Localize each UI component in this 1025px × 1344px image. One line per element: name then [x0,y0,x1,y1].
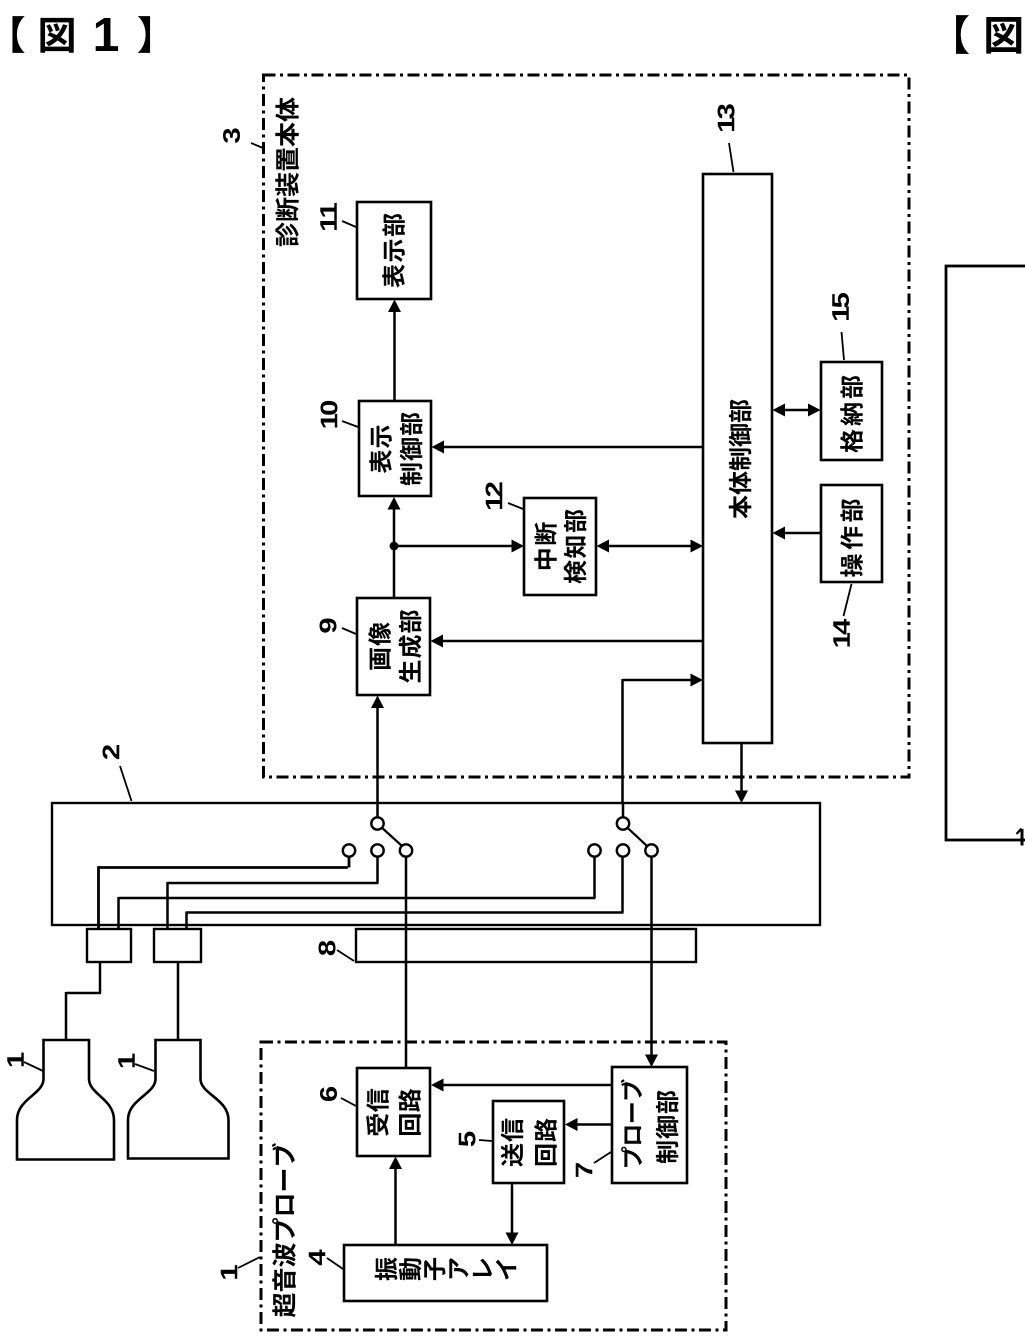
label 5 [459,1132,476,1147]
switch SW1 lever [382,828,401,846]
wire bus4: SW2 contact b to probe connector B [187,857,624,929]
label 14 [833,619,850,647]
wire: SW2 contact c down to プローブ制御部 (arrow down) [645,857,658,1067]
label 11 [320,203,337,230]
text 本体制御部 [729,400,752,519]
wire: 中断検知部 to 本体制御部 (double arrow) [597,540,704,553]
label 10 [321,401,338,428]
wire: 送信回路 to 振動子アレイ (arrow down) [506,1183,519,1245]
switch SW2 contact b [617,844,629,856]
wire: connector A to probe 1 cable [66,962,101,1040]
wire: 本体制御部 to 表示制御部 (arrow left) [432,441,704,454]
switch SW2 lever [628,828,647,846]
wire: SW1 contact c down to 受信回路 [405,857,408,1068]
wire: 画像生成部 top to 表示制御部 bottom (arrow up) [388,497,401,598]
leader line for probe-1 label [24,1062,43,1071]
figure 2 partial mark [1017,829,1023,846]
box 7 プローブ制御部 (probe control unit) [612,1067,687,1183]
label 6 [320,1087,337,1101]
box 11 表示部 (display unit) [357,202,431,299]
wire bus2: SW1 contact b to probe connector B [168,857,379,929]
box 9 画像生成部 (image generation unit) [357,598,430,695]
junction node on image-signal wire [390,542,399,551]
switch SW1 common contact [371,817,383,829]
leader line for 12 [508,503,523,509]
wire: 本体制御部 to 格納部 (double arrow) [773,404,821,417]
leader line for 3 [251,143,263,148]
switch SW1 contact a [343,844,355,856]
box 5 送信回路 (transmit circuit) [493,1101,564,1183]
leader line for 10 [342,421,358,427]
text 送信回路 [501,1118,557,1166]
wire: connector B to probe 2 cable [177,962,180,1040]
label 7 [576,1163,593,1177]
leader line for 15 [842,332,845,360]
text プローブ制御部 [621,1079,679,1167]
leader line for 8 [337,950,354,961]
box 6 受信回路 (receive circuit) [357,1068,430,1156]
text 中断検知部 [534,510,586,584]
wire: probe-select control into 本体制御部 (arrow right) [623,674,704,819]
label 診断装置本体 [275,97,299,246]
label 15 [832,293,849,320]
box 2 selector (probe selection unit) [52,803,820,925]
text 操作部 [840,499,863,577]
leader line for 6 [341,1098,356,1106]
figure 2 partial frame [946,266,1025,840]
wire: プローブ制御部 to 送信回路 (arrow left) [565,1118,612,1131]
wire bus1: SW1 contact a to probe connector A [99,857,350,929]
label 9 [320,618,337,632]
label 超音波プローブ [272,1143,296,1317]
box 8 connector part [356,929,696,962]
wire: junction to 中断検知部 (arrow right) [394,540,524,553]
label 1 (probe 1) [7,1053,24,1067]
leader line for 13 [729,143,734,172]
leader line for 2 [120,766,132,801]
box 12 中断検知部 (disconnection detection unit) [524,498,596,595]
probe connector A [87,929,131,962]
switch SW2 common pole wire [622,803,625,818]
label 13 [718,104,735,131]
switch SW2 contact c [645,844,657,856]
wire bus3: SW2 contact a to probe connector A [119,857,596,929]
text 表示部 [382,214,405,288]
probe 1 body (ultrasound probe outline) [17,1040,114,1160]
wire: プローブ制御部 to 受信回路 (arrow left) [431,1079,612,1092]
label 4 [309,1250,326,1266]
text 画像生成部 [368,610,421,683]
text 格納部 [840,376,863,453]
label 1 (probe 2) [118,1054,135,1068]
label 3 [223,128,240,143]
leader line for 7 [594,1152,611,1163]
leader line for probe-2 label [135,1064,154,1071]
probe connector B [154,929,201,962]
switch SW2 contact a [588,844,600,856]
switch SW1 contact c [400,844,412,856]
leader line for probe-unit label [238,1257,260,1268]
switch SW2 common contact [617,817,629,829]
enclosure box 3 診断装置本体 (diagnostic apparatus main body, dash-dot border) [264,75,910,777]
switch SW1 common pole wire [376,803,379,818]
box 14 操作部 (operation unit) [821,485,882,582]
wire: 振動子アレイ to 受信回路 (arrow up) [389,1157,402,1246]
probe 2 body (ultrasound probe outline) [128,1040,229,1159]
box 10 表示制御部 (display control unit) [359,401,431,496]
text 受信回路 [366,1089,421,1136]
wire: receive signal up to 画像生成部 (arrow up, crosses border) [371,696,384,819]
box 13 本体制御部 (main body control unit) [703,174,772,743]
caption 【図 1】 [12,16,150,53]
label 2 [103,745,120,759]
label 8 [319,941,336,955]
leader line for 14 [844,584,852,616]
box 4 振動子アレイ (transducer array) [344,1245,547,1301]
caption 【図 2 (partial) [956,15,1021,54]
leader line for 5 [479,1140,492,1141]
switch SW1 contact b [371,844,383,856]
label 12 [486,482,503,509]
box 15 格納部 (storage unit) [821,362,882,460]
text 振動子アレイ [375,1257,516,1280]
label 1 (probe unit) [221,1265,238,1279]
enclosure box 1 超音波プローブ (ultrasound probe, dash-dot border) [261,1042,726,1330]
leader line for 9 [342,628,356,634]
wire: 本体制御部 to 画像生成部 (arrow left) [431,635,704,648]
text 表示制御部 [369,413,422,486]
leader line for 11 [342,221,356,227]
wire: 操作部 to 本体制御部 (arrow left) [773,527,821,540]
wire: 表示制御部 to 表示部 (arrow up) [388,300,401,402]
wire: 本体制御部 down to selector box 2 (arrow down) [735,743,748,803]
leader line for 4 [327,1258,343,1269]
